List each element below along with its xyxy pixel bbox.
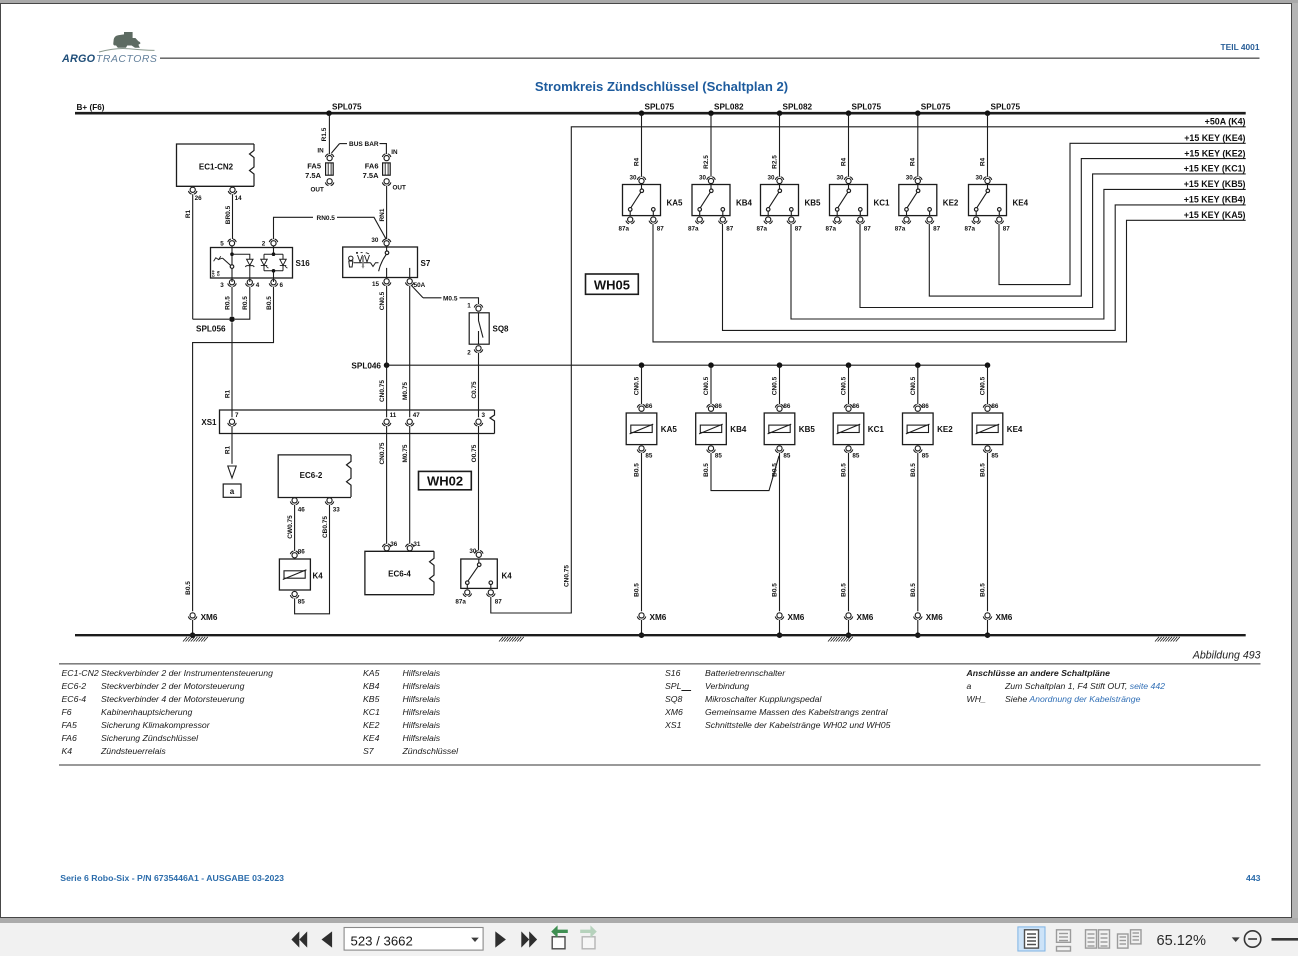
pin 33 of EC6-2 bbox=[331, 502, 334, 505]
pin 87 of relay KE4 contact bbox=[1000, 221, 1003, 224]
pin 87a of relay KB5 contact bbox=[769, 221, 772, 224]
pin 87a of relay KB4 contact bbox=[701, 221, 704, 224]
wire CN0.5 to coil KB5 bbox=[779, 365, 781, 404]
pin 87a of relay KE2 contact bbox=[908, 221, 911, 224]
ground bus hatching bbox=[828, 637, 853, 642]
pin 30 of S7 bbox=[382, 239, 385, 242]
wire R1 from SPL056 to XS1 pin 7 bbox=[231, 322, 233, 417]
wire +15 KEY (KA5) from relay KA5 pin 87 bbox=[653, 220, 1246, 342]
relay contact KB4 bbox=[707, 177, 710, 180]
wire CN0.5 to coil KE2 bbox=[917, 365, 919, 404]
pin 46 of EC6-2 bbox=[296, 502, 299, 505]
relay contact KB5 bbox=[775, 177, 778, 180]
wire B0.5 from coil KA5 pin 85 to XM6 ground bbox=[641, 453, 643, 612]
fuse FA5 7.5A bbox=[325, 154, 328, 157]
pin 36 of EC6-4 bbox=[382, 544, 385, 547]
pin 4 of S16 bbox=[251, 283, 254, 286]
ground XM6 at KA5 bbox=[643, 617, 646, 620]
ground bus hatching bbox=[1155, 637, 1180, 642]
node SPL046 at coil KE4 bbox=[985, 362, 991, 368]
viewer top strip bbox=[0, 0, 1298, 3]
pin 87 of relay KB5 contact bbox=[792, 221, 795, 224]
ground bus hatching bbox=[499, 637, 524, 642]
S7 internal moving contact bbox=[386, 247, 388, 251]
pin 87a of relay KE4 contact bbox=[977, 221, 980, 224]
connector box EC6-2 bbox=[278, 455, 351, 498]
node SPL075 fuse branch bbox=[326, 110, 332, 116]
wire B0.5 from coil KE2 pin 85 to XM6 ground bbox=[917, 453, 919, 612]
S7 fixed contact stubs bbox=[386, 268, 388, 277]
relay contact K4 ignition relay bbox=[475, 551, 478, 554]
wire CN0.75 from SPL046 to XS1 pin 11 bbox=[386, 365, 388, 417]
wire CN0.5 from S7 pin 15 to SPL046 bbox=[386, 286, 388, 366]
wire R4 supply to relay KC1 contact bbox=[848, 113, 850, 177]
viewer right scroll margin bbox=[1292, 3, 1298, 918]
S7 internal wafer contacts bbox=[354, 262, 371, 264]
toolbar controls bbox=[0, 920, 1298, 956]
battery disconnect switch S16 bbox=[211, 248, 293, 279]
harness label WH05 bbox=[586, 274, 639, 294]
logo ground swoosh bbox=[99, 49, 155, 52]
wire CN0.5 to coil KA5 bbox=[641, 365, 643, 404]
pin 31 of EC6-4 bbox=[406, 544, 409, 547]
pin 87a of relay K4 bbox=[468, 594, 471, 597]
pin 87 of relay KA5 contact bbox=[654, 221, 657, 224]
wire CN0.5 to coil KE4 bbox=[987, 365, 989, 404]
relay coil KE4 bbox=[983, 404, 986, 407]
viewer bottom strip bbox=[0, 918, 1298, 923]
wire M0.5 from S7 50A to SQ8 bbox=[412, 286, 423, 298]
pin 87 of relay KB4 contact bbox=[724, 221, 727, 224]
S16 internal switch contact bbox=[231, 246, 233, 254]
relay coil KC1 bbox=[844, 404, 847, 407]
interface connector XS1 bbox=[220, 410, 495, 434]
node SPL046 at coil KB5 bbox=[777, 362, 783, 368]
node SPL075 relay KE4 branch bbox=[985, 110, 991, 116]
wire B0.5 from S16 pin 6 to XM6 ground bbox=[193, 287, 274, 612]
relay coil KB5 bbox=[775, 404, 778, 407]
wire R1 from EC1-CN2 pin 26 to SPL056 bbox=[192, 194, 194, 319]
pin 47 of XS1 bbox=[411, 423, 414, 426]
wire +15 KEY (KE2) from relay KE2 pin 87 bbox=[929, 159, 1245, 297]
relay contact KE2 bbox=[914, 177, 917, 180]
svg-text:65.12%: 65.12% bbox=[1157, 933, 1207, 949]
S16 internal diode to pin 4 bbox=[232, 254, 250, 259]
toolbar background bbox=[0, 923, 1298, 956]
wire R0.5 from S16 pin 4 bbox=[235, 287, 250, 320]
pin 87a of relay KA5 contact bbox=[631, 221, 634, 224]
wire CW0.75 from EC6-2 pin 46 to K4 coil pin 86 bbox=[294, 505, 296, 551]
wire B0.5 from coil KB5 pin 85 to XM6 ground bbox=[779, 453, 781, 612]
wire +15 KEY (KB5) from relay KB5 pin 87 bbox=[791, 189, 1246, 319]
wire O0.75 XS1 pin 3 to K4 contact pin 30 bbox=[478, 426, 480, 550]
node SPL046 at coil KC1 bbox=[846, 362, 852, 368]
pin 14 of EC1-CN2 bbox=[234, 191, 237, 194]
ground XM6 at KB5 bbox=[781, 617, 784, 620]
wire R1.5 from SPL075 to fuse FA5 bbox=[328, 113, 330, 154]
node SPL082 relay KB5 branch bbox=[777, 110, 783, 116]
ground XM6 at KC1 bbox=[850, 617, 853, 620]
harness label WH02 bbox=[419, 471, 472, 489]
wire CN0.5 to coil KB4 bbox=[710, 365, 712, 404]
wire +15 KEY (KC1) from relay KC1 pin 87 bbox=[860, 174, 1246, 308]
relay coil KE2 bbox=[914, 404, 917, 407]
pin 3 of S16 bbox=[233, 283, 236, 286]
fuse FA6 7.5A bbox=[382, 154, 385, 157]
pin 26 of EC1-CN2 bbox=[194, 191, 197, 194]
node SPL046 at coil KA5 bbox=[639, 362, 645, 368]
node SPL046 at coil KE2 bbox=[915, 362, 921, 368]
wire CB0.75 from EC6-2 pin 33 to K4 coil pin 85 bbox=[295, 505, 330, 614]
node SPL082 relay KB4 branch bbox=[708, 110, 714, 116]
relay coil K4 bbox=[290, 551, 293, 554]
wire SPL046 distribution to relay coils bbox=[387, 364, 988, 366]
ground XM6 at KE4 bbox=[989, 617, 992, 620]
ground bus hatching bbox=[183, 637, 208, 642]
connector box EC1-CN2 bbox=[250, 144, 255, 186]
node SPL046 at coil KB4 bbox=[708, 362, 714, 368]
wire R1 to plan reference a bbox=[231, 426, 233, 464]
wire R4 supply to relay KE4 contact bbox=[987, 113, 989, 177]
arrow to reference a bbox=[228, 466, 236, 478]
pin 87 of relay K4 bbox=[492, 594, 495, 597]
wire R0.5 from S16 pin 3 bbox=[231, 287, 233, 316]
wire M0.75 from S7 50A to XS1 pin 47 bbox=[409, 286, 411, 418]
relay coil KA5 bbox=[637, 404, 640, 407]
legend bottom rule bbox=[59, 764, 1261, 766]
wire R4 supply to relay KA5 contact bbox=[641, 113, 643, 177]
connector box EC6-4 bbox=[365, 551, 434, 594]
pin 87a of relay KC1 contact bbox=[838, 221, 841, 224]
relay contact KC1 bbox=[844, 177, 847, 180]
relay contact KA5 bbox=[637, 177, 640, 180]
microswitch SQ8 clutch pedal bbox=[474, 304, 477, 307]
svg-text:523 / 3662: 523 / 3662 bbox=[351, 933, 413, 948]
S7 internal key symbol bbox=[349, 256, 353, 260]
header rule bbox=[160, 57, 1260, 59]
pin 11 of XS1 bbox=[388, 423, 391, 426]
wire CN0.5 to coil KC1 bbox=[848, 365, 850, 404]
ground XM6 at KE2 bbox=[919, 617, 922, 620]
wire +15 KEY (KE4) from relay KE4 pin 87 bbox=[999, 143, 1246, 284]
node SPL075 relay KC1 branch bbox=[846, 110, 852, 116]
wire CN0.75 XS1 pin 11 to EC6-4 pin 36 bbox=[386, 426, 388, 544]
wire RN0.5 from S16 pin 2 to S7 pin 30 bbox=[274, 217, 314, 239]
pin 5 of S16 bbox=[228, 239, 231, 242]
wire +50A (K4) from K4 pin 87 to edge label bbox=[491, 127, 1246, 613]
reference box a bbox=[223, 484, 241, 497]
wire R2.5 supply to relay KB4 contact bbox=[710, 113, 712, 177]
pin 87 of relay KC1 contact bbox=[861, 221, 864, 224]
wire R2.5 supply to relay KB5 contact bbox=[779, 113, 781, 177]
pin 7 of XS1 bbox=[233, 423, 236, 426]
node SPL075 relay KA5 branch bbox=[639, 110, 645, 116]
ignition switch S7 bbox=[343, 247, 418, 278]
pin 3 of XS1 bbox=[480, 423, 483, 426]
pin 6 of S16 bbox=[275, 283, 278, 286]
node SPL046 bbox=[384, 362, 390, 368]
node SPL056 bbox=[229, 316, 235, 322]
wire B+ (F6) top supply bus bbox=[75, 112, 1246, 115]
pin 2 of S16 bbox=[269, 239, 272, 242]
ground XM6 left bbox=[194, 617, 197, 620]
relay contact KE4 bbox=[983, 177, 986, 180]
relay coil KB4 bbox=[707, 404, 710, 407]
wire BR0.5 from EC1-CN2 pin 14 to S16 pin 5 bbox=[232, 194, 234, 239]
pin 50A of S7 bbox=[411, 282, 414, 285]
S16 internal diode pair to pin 6 bbox=[273, 246, 275, 254]
pin 87 of relay KE2 contact bbox=[931, 221, 934, 224]
pin 15 of S7 bbox=[388, 282, 391, 285]
wire M0.75 XS1 pin 47 to EC6-4 pin 31 bbox=[409, 426, 411, 544]
wire ground bus XM6 bbox=[75, 634, 1246, 636]
node SPL075 relay KE2 branch bbox=[915, 110, 921, 116]
wire RN1 from FA6 to S7 pin 30 bbox=[386, 186, 388, 239]
legend top rule bbox=[59, 663, 1261, 665]
wire R4 supply to relay KE2 contact bbox=[917, 113, 919, 177]
wire C0.75 from SQ8 pin 2 to XS1 pin 3 bbox=[478, 353, 480, 418]
logo tractor silhouette bbox=[113, 32, 140, 48]
wire B0.5 from coil KC1 pin 85 to XM6 ground bbox=[848, 453, 850, 612]
wire B0.5 from coil KB4 pin 85 to KB5 pin 85 bbox=[711, 453, 779, 491]
wire +15 KEY (KB4) from relay KB4 pin 87 bbox=[723, 205, 1246, 331]
bus bar bracket and label bbox=[332, 144, 340, 153]
wire B0.5 from coil KE4 pin 85 to XM6 ground bbox=[987, 453, 989, 612]
